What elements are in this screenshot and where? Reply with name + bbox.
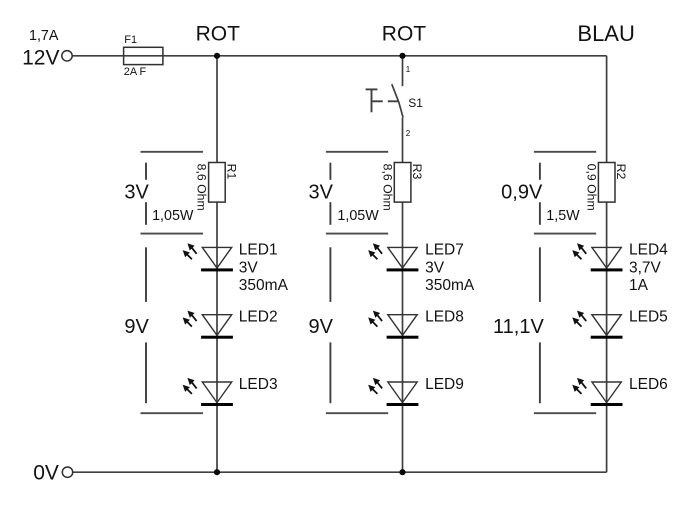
svg-text:R3: R3: [410, 164, 424, 180]
svg-text:0,9 Ohm: 0,9 Ohm: [584, 164, 598, 211]
svg-text:BLAU: BLAU: [577, 21, 634, 46]
LED LED9: [368, 378, 418, 406]
svg-text:LED9: LED9: [425, 376, 464, 393]
node: top junction left: [214, 53, 220, 59]
terminal 0V: [62, 467, 72, 477]
LED LED1: [183, 243, 233, 271]
LED LED7: [368, 243, 418, 271]
voltage bracket 11,1V right: [539, 247, 541, 302]
wire: right branch vertical: [606, 56, 608, 472]
switch S1 actuator button: [366, 88, 378, 90]
svg-text:R2: R2: [614, 164, 628, 180]
voltage bracket 0,9V right: [534, 151, 596, 153]
wire: top 12V rail: [73, 55, 607, 57]
svg-text:8,6 Ohm: 8,6 Ohm: [380, 164, 394, 211]
svg-text:LED4: LED4: [629, 241, 668, 258]
svg-text:3V: 3V: [239, 259, 259, 276]
svg-text:LED3: LED3: [239, 376, 278, 393]
svg-text:11,1V: 11,1V: [493, 316, 544, 338]
fuse F1: [124, 47, 163, 64]
svg-text:F1: F1: [124, 34, 137, 46]
terminal 12V: [62, 51, 72, 61]
resistor R1: [209, 163, 226, 203]
svg-text:0,9V: 0,9V: [501, 182, 543, 204]
wire: left branch vertical: [216, 56, 218, 472]
wire: middle branch pin2 to bottom rail: [402, 118, 404, 473]
svg-text:3,7V: 3,7V: [629, 259, 662, 276]
LED LED8: [368, 311, 418, 339]
svg-text:2: 2: [406, 129, 411, 138]
svg-text:3V: 3V: [425, 259, 445, 276]
wire: bottom 0V rail: [73, 471, 607, 473]
svg-text:350mA: 350mA: [425, 277, 475, 294]
switch S1 blade: [392, 84, 403, 117]
resistor R2: [598, 163, 615, 203]
svg-text:0V: 0V: [33, 462, 59, 485]
LED LED6: [572, 378, 622, 406]
svg-text:1A: 1A: [629, 277, 649, 294]
svg-text:2A F: 2A F: [124, 66, 147, 78]
voltage bracket 3V left: [141, 151, 204, 153]
svg-text:1,05W: 1,05W: [152, 208, 194, 224]
node: bottom junction middle: [399, 469, 405, 475]
voltage bracket 9V middle: [329, 247, 331, 302]
svg-text:9V: 9V: [309, 316, 334, 338]
svg-text:12V: 12V: [22, 47, 59, 70]
svg-text:LED5: LED5: [629, 309, 668, 326]
LED LED5: [572, 311, 622, 339]
voltage bracket 9V left: [145, 247, 147, 302]
svg-text:R1: R1: [224, 164, 238, 180]
svg-text:1: 1: [406, 65, 411, 74]
wire: middle branch pin1 segment: [402, 56, 404, 86]
svg-text:3V: 3V: [124, 182, 149, 204]
svg-text:1,5W: 1,5W: [546, 208, 580, 224]
svg-text:1,05W: 1,05W: [337, 208, 379, 224]
LED LED2: [183, 311, 233, 339]
svg-text:LED1: LED1: [239, 241, 278, 258]
voltage bracket 3V middle: [326, 151, 388, 153]
svg-text:9V: 9V: [124, 316, 149, 338]
LED LED4: [572, 243, 622, 271]
LED LED3: [183, 378, 233, 406]
svg-text:350mA: 350mA: [239, 277, 289, 294]
svg-text:ROT: ROT: [382, 23, 427, 46]
svg-text:LED7: LED7: [425, 241, 464, 258]
svg-text:8,6 Ohm: 8,6 Ohm: [195, 164, 209, 211]
svg-text:LED8: LED8: [425, 309, 464, 326]
node: bottom junction left: [214, 469, 220, 475]
switch S1 actuator link: [372, 100, 383, 102]
svg-text:3V: 3V: [309, 182, 334, 204]
svg-text:S1: S1: [408, 96, 423, 110]
svg-text:ROT: ROT: [196, 23, 241, 46]
node: top junction middle: [399, 53, 405, 59]
svg-text:1,7A: 1,7A: [29, 28, 59, 44]
resistor R3: [394, 163, 411, 203]
svg-text:LED6: LED6: [629, 376, 668, 393]
svg-text:LED2: LED2: [239, 309, 278, 326]
